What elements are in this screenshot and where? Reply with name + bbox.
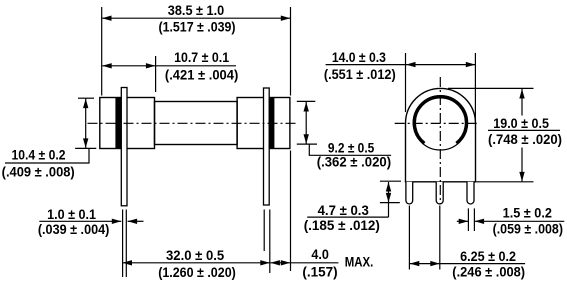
end view vertical centerline <box>439 77 441 204</box>
end view horizontal centerline <box>395 122 479 124</box>
clip band left (solid) <box>115 98 121 149</box>
pin P2 <box>436 182 443 204</box>
dimension 1.5 extension lines below pin P3 <box>468 208 474 231</box>
dimension 9.2 text <box>317 140 391 170</box>
dimension 4.7 arrow line and leader <box>307 182 391 217</box>
dimension 19.0 text <box>488 115 562 147</box>
svg-text:10.7 ± 0.1: 10.7 ± 0.1 <box>174 49 229 65</box>
lead L2 (right lead of side view) <box>264 88 270 205</box>
svg-text:6.25 ± 0.2: 6.25 ± 0.2 <box>460 248 516 264</box>
centerline of side view <box>88 122 299 124</box>
dimension 10.7 extension line right <box>155 56 157 92</box>
dimension 1.5 line and arrows <box>457 219 565 224</box>
dimension 9.2 leader elbow <box>309 144 391 155</box>
dimension 14.0 extension lines <box>406 53 476 122</box>
end view ring (thin) <box>413 96 468 151</box>
dimension 10.4 extension lines <box>75 98 96 148</box>
dimension 4.7 text <box>304 202 380 233</box>
svg-text:19.0 ± 0.5: 19.0 ± 0.5 <box>493 115 549 131</box>
dimension 6.25 line and arrows <box>410 261 525 266</box>
extension line below pin P2 <box>439 206 441 270</box>
svg-text:14.0 ± 0.3: 14.0 ± 0.3 <box>332 49 386 65</box>
svg-text:1.5 ± 0.2: 1.5 ± 0.2 <box>503 204 552 220</box>
lead L1 (left lead of side view) <box>121 88 127 206</box>
svg-text:(.059 ± .008): (.059 ± .008) <box>493 221 563 237</box>
dimension 1.0 line and arrows <box>39 219 143 224</box>
dimension 32.0 line and arrows <box>123 260 270 265</box>
svg-text:(.185 ± .012): (.185 ± .012) <box>304 217 380 233</box>
dimension 32.0 text <box>158 247 236 280</box>
svg-text:MAX.: MAX. <box>345 254 374 270</box>
dimension 6.25 extension line below pin P1 <box>408 206 410 270</box>
svg-text:10.4 ± 0.2: 10.4 ± 0.2 <box>12 147 66 163</box>
svg-text:4.0: 4.0 <box>311 246 329 262</box>
dimension 6.25 text <box>452 248 525 280</box>
dimension 1.5 text <box>493 204 563 236</box>
svg-text:38.5 ± 1.0: 38.5 ± 1.0 <box>168 2 225 18</box>
pin P1 <box>406 182 413 204</box>
svg-text:(.421 ± .004): (.421 ± .004) <box>165 66 238 82</box>
dimension 4.0 arrows and line <box>270 260 338 265</box>
svg-text:(.409 ± .008): (.409 ± .008) <box>2 163 75 179</box>
dimension 19.0 arrow lines <box>519 89 524 181</box>
svg-text:(.748 ± .020): (.748 ± .020) <box>488 131 562 147</box>
svg-text:1.0 ± 0.1: 1.0 ± 0.1 <box>47 206 96 222</box>
pin P3 <box>467 182 474 204</box>
svg-text:32.0 ± 0.5: 32.0 ± 0.5 <box>166 247 224 263</box>
svg-text:(.039 ± .004): (.039 ± .004) <box>38 221 110 237</box>
clip band right (solid) <box>269 98 275 149</box>
dimension 38.5 line and arrows <box>102 16 290 21</box>
svg-text:4.7 ± 0.3: 4.7 ± 0.3 <box>318 202 369 218</box>
svg-text:(.157): (.157) <box>302 263 337 279</box>
dimension 14.0 line and arrows <box>326 62 476 67</box>
svg-text:(1.517 ± .039): (1.517 ± .039) <box>158 18 235 34</box>
dimension 1.0 extension lines below left lead <box>123 210 127 278</box>
svg-text:(1.260 ± .020): (1.260 ± .020) <box>158 264 236 280</box>
end view ring (bold arc) <box>414 97 466 143</box>
dimension 19.0 extension lines <box>448 88 534 181</box>
dimension 38.5 text <box>158 2 235 35</box>
dimension 10.4 arrow line <box>83 99 88 148</box>
svg-text:(.551 ± .012): (.551 ± .012) <box>324 66 396 82</box>
svg-text:(.246 ± .008): (.246 ± .008) <box>452 264 525 280</box>
dimension 1.0 text <box>38 206 110 237</box>
dimension 4.7 extension lines <box>380 181 401 202</box>
dimension 10.7 line and arrows <box>102 63 236 68</box>
dimension 38.5/4.0 extension line right <box>290 7 292 271</box>
dimension 4.0 text <box>302 246 373 279</box>
side view body <box>100 98 290 149</box>
dimension 10.4 text <box>2 147 75 180</box>
dimension 9.2 arrow line <box>304 102 309 144</box>
dimension 10.7 text <box>165 49 238 82</box>
dimension 9.2 extension lines <box>297 101 317 144</box>
svg-text:(.362 ± .020): (.362 ± .020) <box>317 153 391 169</box>
dimension 38.5 extension line left <box>101 7 103 96</box>
dimension 14.0 text <box>324 49 396 82</box>
dimension 32.0 / 4.0 extension lines below right lead <box>264 210 270 274</box>
end view body <box>406 88 476 181</box>
dimension 10.4 leader elbow <box>5 148 89 163</box>
